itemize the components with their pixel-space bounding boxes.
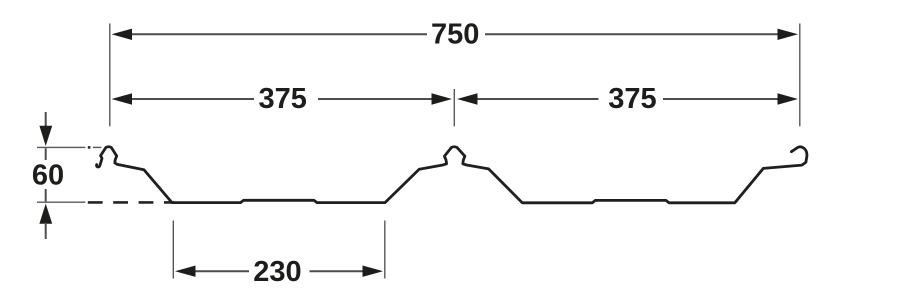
dimension 60: upper shaft bbox=[45, 112, 47, 127]
panel profile bbox=[97, 147, 807, 203]
svg-text:230: 230 bbox=[253, 256, 301, 288]
dimension line 375 right bbox=[473, 98, 599, 100]
arrowhead 750 left bbox=[112, 29, 133, 40]
tick top y=147.4 bbox=[37, 146, 85, 148]
arrowhead 230 right bbox=[363, 266, 384, 277]
extension line right (x=800) bbox=[799, 24, 801, 127]
tick bottom y=202.2 bbox=[37, 201, 85, 203]
svg-text:375: 375 bbox=[259, 83, 307, 115]
extension line left (x=110) bbox=[109, 24, 111, 127]
dashed base line to profile bbox=[88, 201, 174, 204]
arrowhead 750 right bbox=[778, 29, 799, 40]
svg-text:60: 60 bbox=[32, 160, 64, 192]
60 mid shaft upper bbox=[45, 148, 47, 160]
60 mid shaft lower bbox=[45, 189, 47, 201]
svg-text:375: 375 bbox=[608, 83, 656, 115]
arrowhead 375R right bbox=[778, 93, 799, 104]
dimension line 750 bbox=[128, 33, 427, 35]
arrowhead 230 left bbox=[175, 266, 196, 277]
dimension line 375 left bbox=[128, 98, 254, 100]
dash-dot after top tick bbox=[88, 146, 91, 149]
arrowhead 375L left bbox=[112, 93, 133, 104]
extension line center (x=454) bbox=[453, 89, 455, 126]
arrowhead 60 down bbox=[39, 126, 52, 146]
dimension line 230 bbox=[192, 270, 249, 272]
arrowhead 60 up bbox=[39, 204, 52, 224]
extension line 230 left bbox=[172, 221, 174, 279]
dimension 60: lower shaft bbox=[45, 223, 47, 239]
arrowhead 375R left bbox=[457, 93, 478, 104]
extension line 230 right bbox=[384, 221, 386, 279]
svg-text:750: 750 bbox=[431, 19, 479, 51]
arrowhead 375L right bbox=[432, 93, 453, 104]
